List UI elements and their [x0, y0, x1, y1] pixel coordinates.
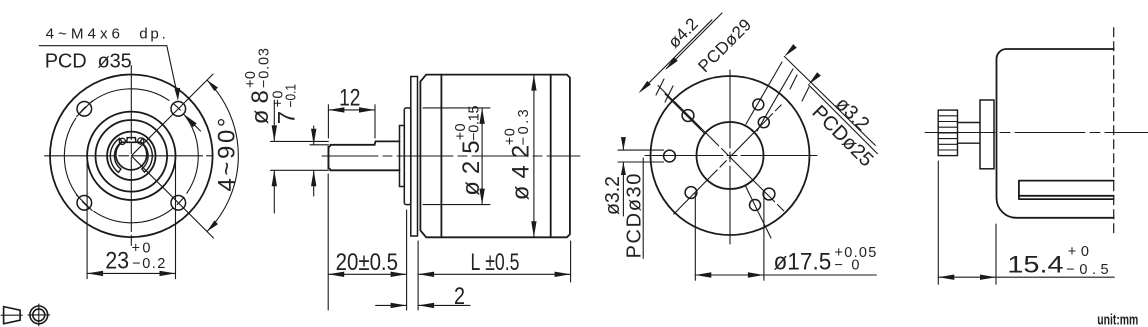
radial line through H6	[745, 185, 771, 238]
rear outer circle	[651, 76, 810, 235]
radial 2 top-left	[665, 94, 704, 133]
7 ext top (flat)	[310, 144, 329, 146]
hole bottom-left M4	[77, 196, 92, 211]
tick top-left 1	[656, 79, 664, 95]
flange outer circle Ø42	[50, 75, 213, 238]
Ø17.5 arrow left	[695, 272, 711, 277]
cone centerline	[1, 314, 22, 316]
center hole Ø17.5	[697, 122, 764, 189]
svg-text:23: 23	[105, 248, 129, 275]
23 dim arrow right	[160, 271, 176, 276]
20 arrow left	[328, 272, 344, 277]
tick top-right 1	[790, 75, 797, 89]
hole H1 top-left Ø4.2	[682, 110, 694, 122]
hole top-left M4	[77, 102, 92, 117]
shaft circle Ø8 with flat	[116, 142, 147, 170]
23 dim ext line right	[175, 152, 177, 279]
7 arrow top	[311, 129, 316, 145]
svg-text:L ±0.5: L ±0.5	[471, 249, 520, 276]
diagonal 45 centerline	[674, 105, 782, 214]
svg-text:12: 12	[339, 85, 360, 112]
angle dimension arc 4~90	[207, 80, 238, 231]
2 arrow left	[391, 303, 407, 308]
svg-text:20±0.5: 20±0.5	[336, 249, 398, 276]
Ø42 dim line	[533, 75, 535, 238]
Ø42 arrow bottom	[531, 221, 536, 237]
svg-text:PCD ø35: PCD ø35	[45, 50, 132, 72]
body joint line 2	[550, 75, 552, 238]
Ø42 arrow top	[531, 75, 536, 91]
2 arrow right	[418, 303, 434, 308]
hole bottom-right M4	[171, 196, 186, 211]
2 dim left segment	[376, 304, 407, 306]
body joint line 1	[440, 75, 442, 238]
arrow U1	[784, 44, 796, 56]
svg-text:ø42: ø42	[508, 145, 535, 200]
Ø3.2 left ext bottom	[618, 161, 664, 163]
12 arrow left	[328, 107, 344, 112]
radial through H1	[658, 86, 701, 129]
7 dim line upper	[313, 126, 315, 145]
12 arrow right	[359, 107, 375, 112]
centerline view2	[322, 155, 580, 157]
Ø25 arrow top	[479, 108, 484, 124]
retaining ring lug right	[138, 138, 144, 144]
PCDØ29 leader arrow	[639, 81, 651, 93]
centerline view4	[925, 132, 1148, 134]
knurl lines	[938, 116, 957, 150]
PCDØ29 underline leader	[641, 20, 712, 91]
15.4 dim line	[938, 276, 1114, 278]
horizontal centerline view1	[45, 155, 213, 157]
vertical centerline view1	[130, 66, 132, 246]
hole H6 bottom PCD30 Ø3.2	[750, 200, 761, 211]
projection crosshair horizontal	[28, 314, 50, 316]
Ø3.2 left arrow up	[621, 162, 626, 175]
washer	[400, 126, 405, 187]
Ø17.5 ext right	[763, 192, 765, 280]
radial line through H5	[746, 62, 782, 124]
Ø25 extension line bottom	[423, 204, 490, 206]
arc arrow top	[207, 80, 218, 91]
diagonal 135 centerline	[675, 102, 785, 212]
Ø17.5 arrow right	[748, 272, 764, 277]
knurled adjuster	[938, 110, 957, 156]
Ø8 arrow bottom	[272, 170, 277, 186]
tick through top-left hole	[77, 101, 93, 117]
shaft outline	[328, 141, 399, 170]
Ø8 ext top	[271, 140, 329, 142]
diagonal 45 down-right through hole	[131, 156, 213, 238]
key tab top	[127, 138, 136, 143]
leader 4~M4x6 underline	[39, 46, 177, 96]
pilot circle Ø23	[87, 112, 175, 200]
hole H2 bottom-left Ø4.2	[685, 187, 697, 199]
vertical centerline view3	[729, 70, 731, 246]
tick through bottom-left hole	[77, 195, 93, 211]
2 dim right segment	[418, 304, 470, 306]
front plate	[411, 77, 418, 237]
shaft stub view4	[958, 123, 981, 144]
Ø25 extension line top	[423, 107, 490, 109]
svg-text:ø17.5: ø17.5	[774, 249, 832, 276]
retaining ring lug left	[119, 138, 125, 144]
bottom ext body rear	[570, 241, 572, 282]
arrow U2	[808, 72, 820, 84]
inner ring circle	[96, 120, 168, 192]
12 dim ext right	[374, 105, 376, 138]
shaft left end cap	[327, 147, 329, 169]
tick top-left 2	[665, 86, 673, 102]
boss Ø25	[404, 108, 411, 205]
svg-text:−0.2: −0.2	[132, 256, 165, 272]
Ø3.2 left dim upper segment	[622, 138, 624, 150]
hole H7 left PCD30 Ø3.2	[664, 150, 676, 162]
15.4 arrow left	[938, 275, 954, 280]
15.4 arrow right	[980, 275, 996, 280]
PCDØ30 underline	[642, 158, 644, 258]
retaining ring left arc	[110, 138, 122, 172]
svg-text:ø3.2: ø3.2	[602, 176, 624, 215]
bearing circle	[107, 132, 155, 180]
bottom ext body front	[417, 241, 419, 310]
L arrow right	[555, 272, 571, 277]
svg-text:2: 2	[454, 283, 465, 310]
diagonal 45 up-right through hole	[131, 74, 213, 156]
Ø4.2 underline leader	[667, 13, 723, 69]
svg-text:ø25: ø25	[458, 140, 485, 195]
projection crosshair vertical	[38, 304, 40, 326]
svg-text:unit:mm: unit:mm	[1097, 312, 1138, 327]
Ø25 dim line	[481, 108, 483, 205]
rear plate	[980, 100, 994, 169]
23 dim ext line left	[86, 152, 88, 279]
L arrow left	[418, 272, 434, 277]
Ø3.2 PCD25 underline	[784, 57, 875, 146]
Ø8/7 ext bottom	[271, 169, 329, 171]
bottom ext boss face	[406, 210, 408, 310]
Ø8 dim line lower	[273, 170, 275, 213]
projection circle inner	[33, 309, 45, 321]
horizontal centerline view3	[645, 155, 817, 157]
tick top-right 2	[802, 87, 809, 101]
gearbox body outline	[420, 75, 570, 238]
Ø3.2 left arrow down	[621, 137, 626, 150]
bottom ext shaft tip	[327, 174, 329, 310]
second arrow below hole	[184, 114, 197, 127]
Ø17.5 dim line	[695, 274, 876, 276]
arc arrow bottom	[207, 221, 218, 232]
7 dim line lower	[313, 170, 315, 196]
20 arrow right	[391, 272, 407, 277]
Ø8 dim line upper	[273, 100, 275, 141]
15.4 ext left	[937, 161, 939, 284]
hole H4 top-right PCD25 Ø3.2	[758, 117, 769, 128]
12 dim line	[328, 109, 375, 111]
svg-text:−0.15: −0.15	[467, 105, 483, 141]
Ø25 arrow bottom	[479, 189, 484, 205]
retaining ring right arc	[140, 138, 152, 172]
svg-text:7: 7	[274, 111, 301, 124]
20 dim line	[328, 273, 406, 275]
radial line 2 top-right	[757, 69, 793, 131]
7 arrow bottom	[311, 170, 316, 186]
svg-text:−0.03: −0.03	[257, 48, 273, 88]
hole top-right M4	[171, 102, 186, 117]
svg-text:−0.3: −0.3	[516, 109, 532, 145]
cone symbol	[4, 307, 21, 324]
projection circle outer	[30, 306, 48, 324]
motor body	[997, 49, 1114, 218]
svg-text:15.4: 15.4	[1007, 252, 1063, 279]
tail of second arrow	[195, 125, 201, 131]
Ø3.2 left dim lower segment (underline)	[622, 162, 624, 216]
12 dim ext left	[327, 105, 329, 138]
Ø17.5 ext left	[694, 192, 696, 280]
Ø8 arrow top	[272, 125, 277, 141]
23 dim line	[87, 272, 175, 274]
23 dim arrow left	[87, 271, 103, 276]
svg-text:−0.1: −0.1	[284, 84, 300, 108]
15.4 ext right	[995, 224, 997, 284]
PCD Ø35 bolt circle (dash-dot)	[64, 89, 198, 223]
hole H5 top-right PCD30 Ø3.2	[753, 99, 764, 110]
hole H3 bottom-right Ø4.2	[763, 188, 775, 200]
svg-text:dp.: dp.	[139, 26, 166, 43]
Ø4.2 leader arrow	[665, 57, 677, 69]
L dim line	[418, 273, 570, 275]
leader arrow at hole	[175, 88, 181, 101]
PCDØ25 underline	[808, 85, 877, 154]
break dashed line	[1113, 28, 1115, 235]
Ø3.2 left ext top	[618, 149, 664, 151]
